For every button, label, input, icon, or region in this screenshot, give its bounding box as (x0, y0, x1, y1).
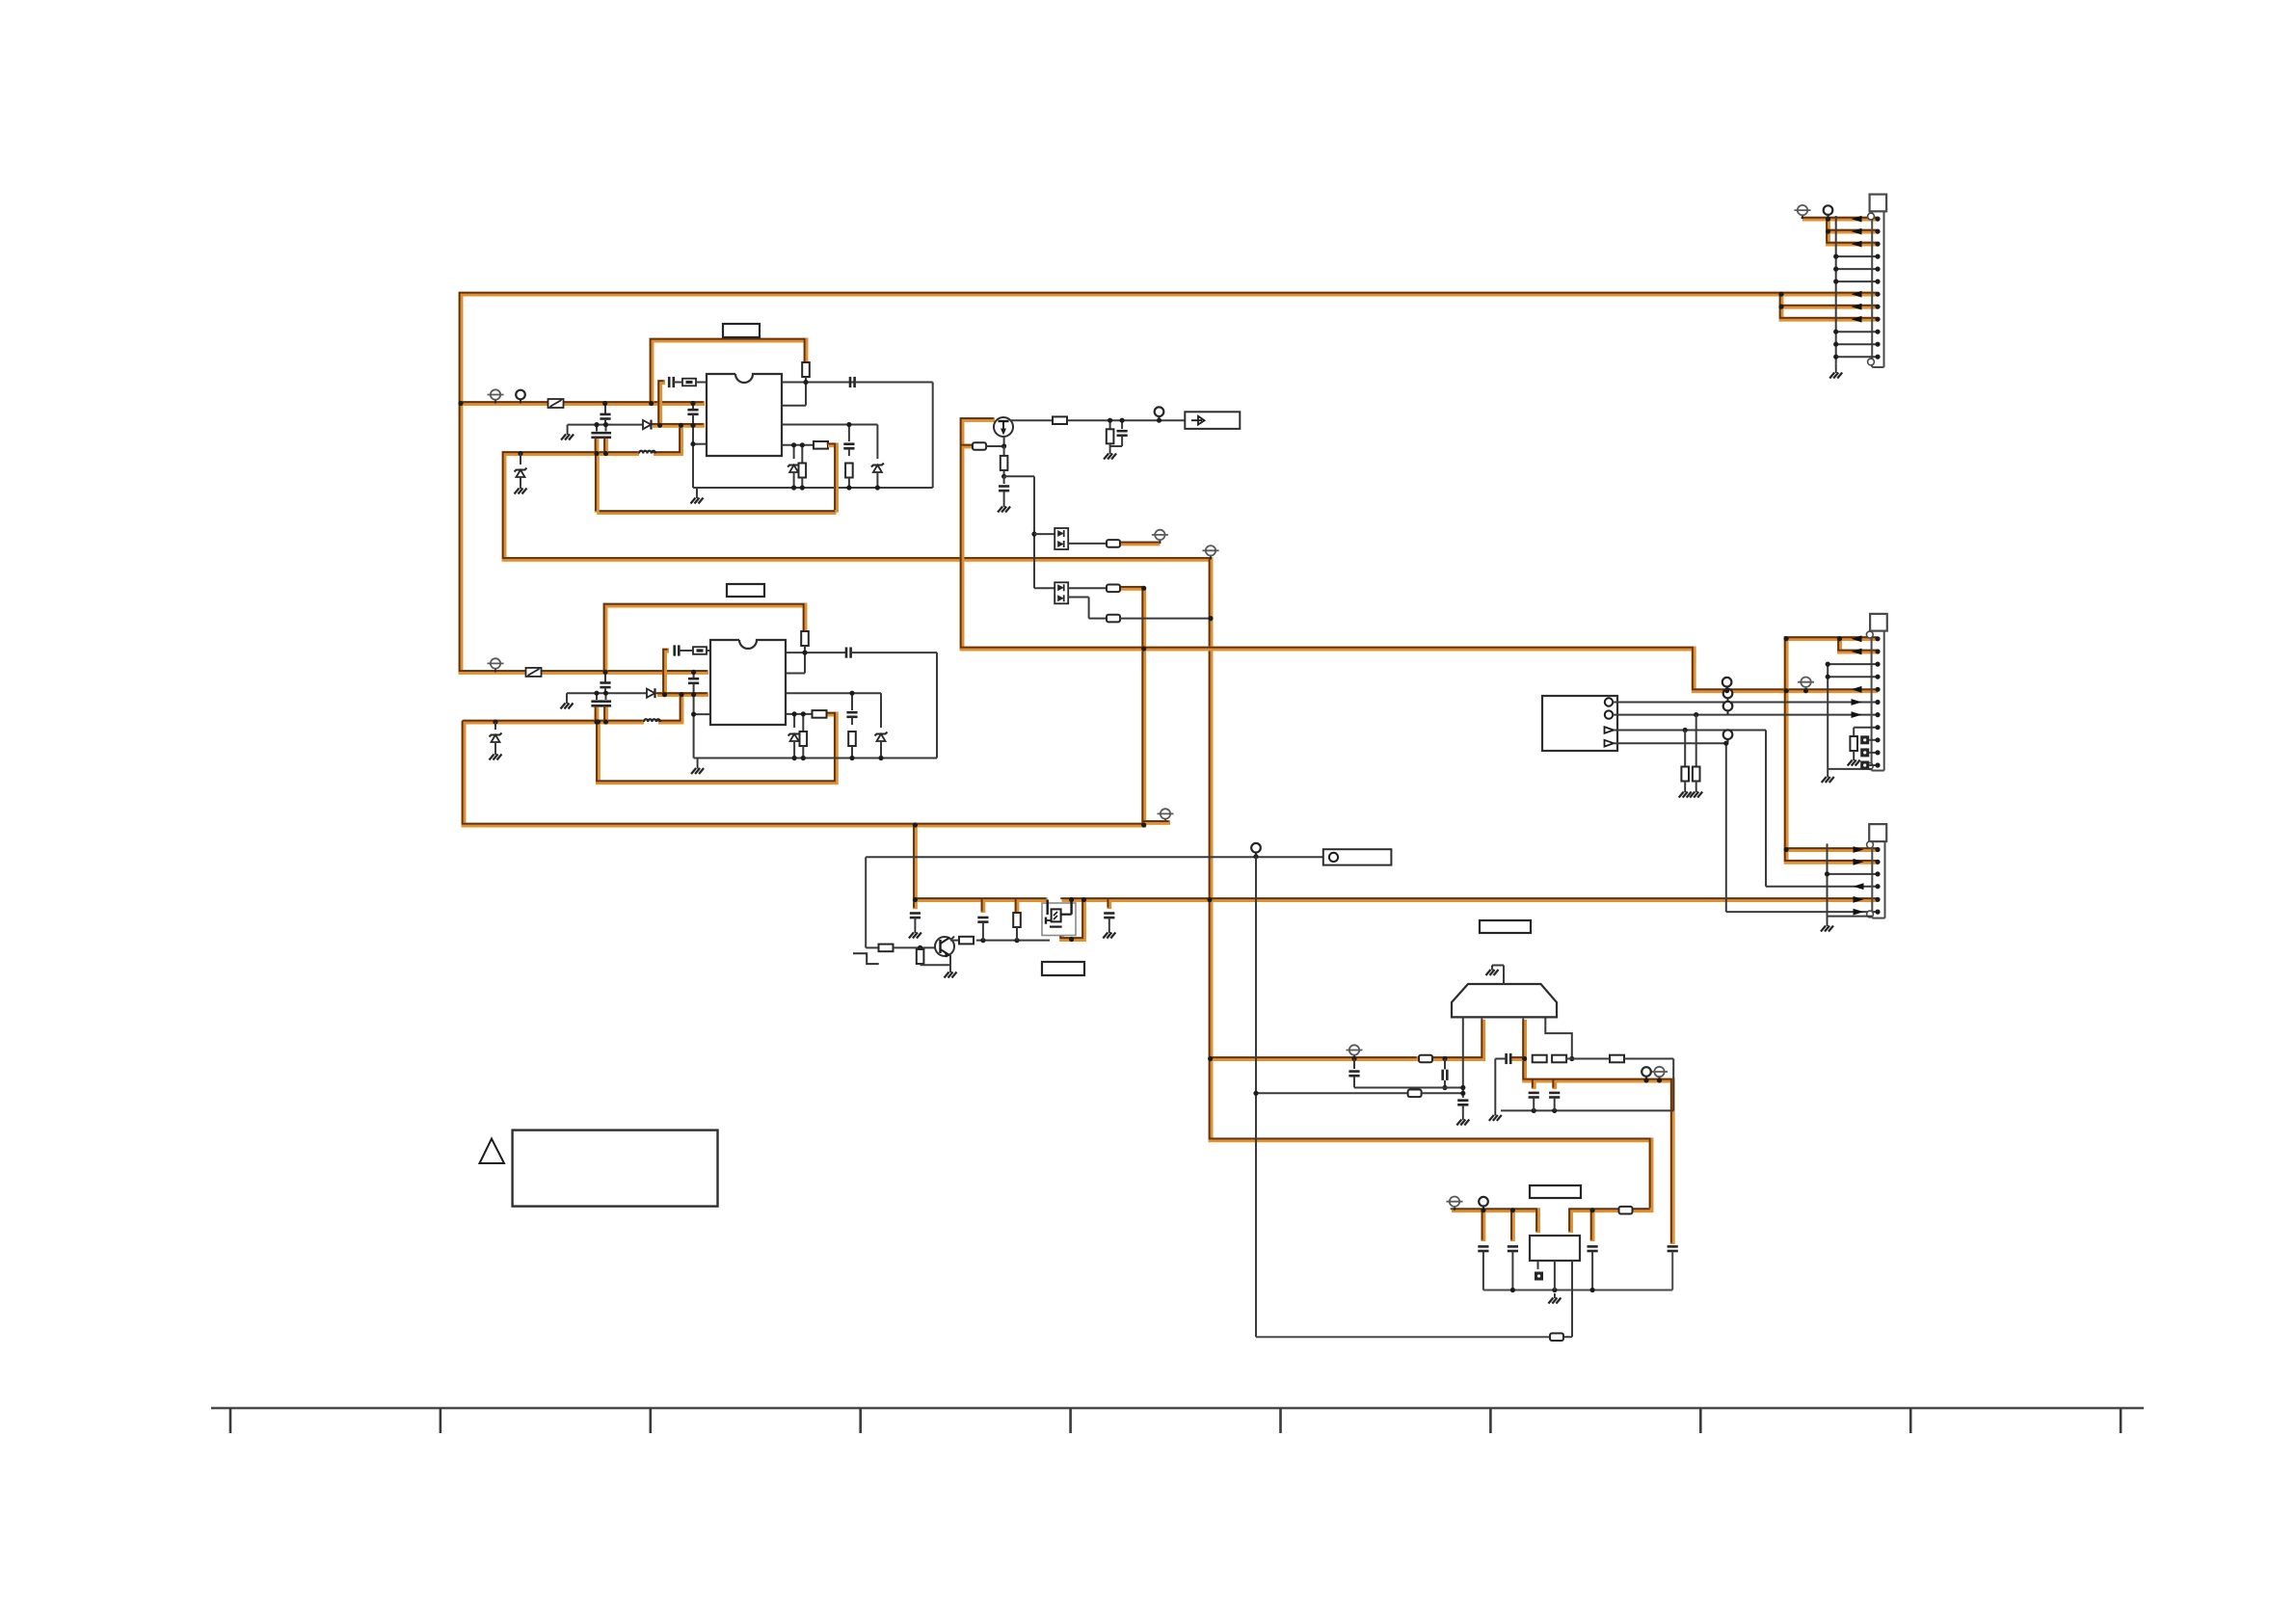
wire R11 bottom lead (1003, 470, 1005, 476)
junction bus feed (913, 897, 918, 902)
power flag VIN2 (488, 658, 504, 672)
fuse F2 (526, 668, 542, 677)
arrow J3 p4 (1854, 883, 1864, 890)
wire R11 top lead (1003, 446, 1005, 456)
junction U4 bus b (1510, 1208, 1515, 1212)
wire C23 gnd drop (1494, 1059, 1496, 1111)
ground G12 (1486, 966, 1499, 976)
resistor R8 (813, 710, 827, 718)
wire U3 tab stub (1503, 966, 1505, 985)
wire C5 top lead (692, 404, 694, 411)
test point box (1323, 849, 1392, 865)
wire Z3 gnd lead (520, 477, 521, 484)
junction J3 pin5 (1875, 897, 1880, 902)
wire R19 gnd lead (1684, 782, 1686, 788)
wire cap stub mid (913, 825, 918, 909)
wire zener Z5 lead (880, 693, 882, 728)
ground G10 (945, 968, 957, 978)
junction 3V flag (1351, 1056, 1356, 1061)
wire sense vertical long (1255, 857, 1257, 1337)
junction OUT2-riser (679, 692, 683, 697)
junction OUT1-riser (679, 423, 683, 428)
resistor R18 (1610, 1055, 1624, 1063)
junction C23-pin3 (1522, 1056, 1527, 1061)
power flag VIN1 (488, 389, 504, 403)
ground G16 (1679, 787, 1692, 798)
junction J3 pin1 (1875, 847, 1880, 852)
junction row2-C10 (603, 691, 608, 696)
ruler tick (2120, 1408, 2122, 1433)
wire J2 p8 drop (1853, 728, 1855, 740)
wire res row (1566, 1058, 1610, 1060)
wire IC1 pin R1 row (782, 382, 854, 384)
junction gnd rail Z1 (791, 485, 796, 490)
wire C22 top lead (1353, 1059, 1355, 1070)
junction J1 pin4 (1875, 254, 1880, 259)
wire IC1 pin R2 (782, 405, 806, 407)
junction J2 pin9 (1875, 737, 1880, 742)
wire +B J1 p1 (1802, 217, 1878, 222)
junction J1 pin6 (1875, 279, 1880, 284)
wire C8 bottom lead (604, 688, 606, 694)
wire cap stub e (1552, 1080, 1557, 1089)
wire C17 gnd lead (914, 918, 916, 928)
junction R5-row (802, 651, 807, 655)
junction J2 pin5 (1875, 687, 1880, 692)
wire +B J1 p2 (1829, 229, 1879, 234)
capacitor C2 (591, 433, 601, 438)
wire R21 gnd lead (1853, 751, 1855, 756)
component FB8 (1550, 1333, 1563, 1341)
wire base row b (894, 946, 937, 948)
wire center vertical 1 (692, 427, 694, 488)
dual diode D4 (1055, 582, 1068, 603)
wire BATT net (962, 419, 1878, 690)
arrow J1 pin1 (1852, 216, 1862, 223)
wire J2 pin8 (1854, 727, 1878, 729)
junction det-C15 (1120, 418, 1125, 423)
junction PWR cross (1141, 646, 1146, 651)
resistor R10 (1107, 429, 1114, 443)
wire gnd stub det (1109, 446, 1111, 449)
wire FB1 bottom run (597, 510, 836, 515)
label box U4 (1530, 1185, 1581, 1198)
wire IC2 pin R4 row (786, 713, 814, 715)
resistor R4 (814, 441, 828, 449)
wire 5V bus right (1062, 897, 1878, 902)
title-block ruler line (211, 1407, 2144, 1409)
junction VIN2-loop (602, 670, 607, 675)
junction J1 pin8 (1875, 305, 1880, 309)
wire gate row b (976, 940, 1050, 942)
wire Q1 base row (985, 445, 1004, 447)
wire Z5 to gnd rail (880, 741, 882, 758)
wire 1.8V net (1525, 1020, 1673, 1244)
junction PWR corner (1141, 822, 1146, 827)
connector J3 shell (1867, 824, 1887, 918)
junction FET return (1069, 937, 1074, 942)
capacitor C11 (846, 648, 851, 658)
wire C20 gnd lead (1462, 1105, 1464, 1115)
junction J3 pin4 (1875, 884, 1880, 889)
filter FB1 (682, 379, 696, 386)
wire U5d to J3 p6 (1726, 911, 1878, 913)
wire IC1 pin R3 row (782, 424, 877, 426)
wire emitter row (921, 964, 950, 966)
wire to D3 (1034, 533, 1055, 535)
wire U5b to J2 p7 (1613, 714, 1878, 716)
junction (1826, 662, 1830, 667)
capacitor C27 (1508, 1246, 1518, 1251)
junction VIN1-loop (649, 401, 654, 406)
wire FB1 riser (595, 454, 600, 513)
wire +B J1 drop (1829, 219, 1879, 244)
wire C2 top lead (596, 425, 598, 432)
junction C25 bottom (1552, 1108, 1557, 1113)
wire J3 pin3 (1828, 873, 1879, 875)
wire OUT2 to IC (657, 692, 708, 697)
wire R2 to gnd rail (801, 478, 803, 489)
junction R11-C16 (1001, 474, 1006, 479)
junction gate-C18 (980, 938, 985, 943)
bead NC (1535, 1272, 1543, 1281)
wire diode feed vertical (1033, 476, 1035, 588)
arrow J2 p2 (1852, 649, 1862, 655)
capacitor C21 plates (1443, 1070, 1448, 1080)
wire gnd-cap row 2 (567, 692, 648, 694)
wire R1 to pin (805, 377, 807, 406)
ground G17 (1690, 787, 1702, 798)
wire Z4 to gnd rail (793, 741, 795, 758)
resistor R7 (848, 732, 856, 746)
arrow J1 pin8 (1852, 304, 1862, 310)
junction BATT flag (1803, 688, 1808, 693)
wire IC2 pin L4 (694, 713, 709, 715)
wire center vertical 2 (693, 696, 695, 758)
junction 1.8V flag (1657, 1078, 1662, 1082)
junction TP4 (1643, 1078, 1648, 1082)
IC U1 regulator (707, 374, 782, 456)
junction R3-C7 (846, 422, 851, 427)
wire gnd rail 2 (694, 758, 937, 759)
dual diode D3 (1055, 528, 1068, 549)
wire R13 top lead (920, 947, 921, 951)
wire C15 bottom lead (1121, 437, 1123, 447)
wire detect out (1119, 541, 1161, 545)
wire C2 bottom lead (595, 439, 600, 454)
arrow J1 pin9 (1852, 316, 1862, 323)
power flag U4 (1447, 1197, 1463, 1211)
transistor Q2 NPN (935, 937, 954, 958)
bead J2 p10 (1860, 748, 1869, 757)
wire J1 pin4 (1836, 255, 1878, 257)
wire J3 gnd rail (1827, 843, 1829, 916)
capacitor C22 (1348, 1072, 1359, 1077)
junction sense (1253, 1091, 1258, 1096)
junction gnd rail Z4 (792, 756, 797, 760)
wire C14 top lead (851, 693, 853, 710)
wire to dual diodes (1004, 475, 1034, 477)
capacitor C25 (1549, 1093, 1560, 1098)
capacitor C7 (843, 444, 854, 449)
wire Z3 lead (520, 454, 521, 466)
resistor R15 (1013, 913, 1021, 927)
wire res stub b (1015, 900, 1020, 916)
wire J2 pin4 (1828, 676, 1878, 678)
resistor R9 (1053, 416, 1067, 424)
wire U5a to J2 p6 (1613, 702, 1878, 704)
wire to D4 (1034, 587, 1055, 589)
wire C16 gnd lead (1003, 492, 1005, 502)
junction (1833, 355, 1838, 359)
wire cap stub f (1481, 1211, 1485, 1241)
wire IC2 pin R2 (786, 673, 805, 675)
wire C9 top lead (596, 693, 598, 700)
wire gnd stub Q2 (949, 965, 951, 968)
arrow J2 p6 (1852, 699, 1862, 705)
zener Z5 (875, 732, 888, 742)
wire SW2 cap stub (665, 651, 670, 695)
wire R10-C15 join (1110, 445, 1123, 447)
junction bus start (1208, 1056, 1213, 1061)
arrow J1 pin3 (1852, 241, 1862, 248)
arrow J2 p1 (1852, 635, 1862, 642)
U5 pin bubbles (1605, 698, 1615, 746)
wire J1 pin5 (1836, 268, 1878, 270)
capacitor C12 (688, 678, 699, 683)
junction FET drain (1069, 897, 1074, 902)
label box Q3 (1042, 962, 1084, 975)
capacitor C3 (601, 433, 611, 438)
junction diode1 tap (1031, 532, 1036, 537)
wire 3V bus b (1433, 1020, 1483, 1059)
junction J1 pin7 (1875, 292, 1880, 297)
connector J1 shell (1868, 195, 1887, 367)
wire fb loop vertical 1 (932, 383, 934, 489)
step waveform symbol (853, 953, 879, 964)
junction VIN1-C1 (602, 401, 607, 406)
wire U5c drop (1765, 731, 1767, 887)
ruler tick (649, 1408, 652, 1433)
wire cap stub d (1532, 1080, 1536, 1089)
label box U1 (723, 324, 760, 337)
junction J2 pin4 (1875, 675, 1880, 679)
wire fb bottom row (1501, 1109, 1673, 1111)
wire 3V bus a (1211, 1056, 1418, 1061)
wire R6 top lead (802, 714, 804, 732)
wire C3 bottom lead (603, 439, 608, 454)
capacitor C20 (1457, 1101, 1468, 1105)
ruler tick (1909, 1408, 1912, 1433)
junction (1833, 267, 1838, 272)
wire FB1 to IC (696, 382, 706, 384)
wire C16 top lead (1003, 476, 1005, 484)
power flag BATT (1798, 678, 1814, 691)
junction D4-OUT1 (1208, 616, 1213, 621)
wire U4 gnd pin (1554, 1261, 1556, 1290)
junction J1 pin12 (1875, 355, 1880, 359)
IC U2 regulator (710, 640, 786, 725)
capacitor C23 (1507, 1053, 1511, 1064)
zener Z4 (788, 732, 801, 742)
junction J3 pin3 (1875, 871, 1880, 876)
junction rail C27 (1510, 1288, 1515, 1292)
junction gnd rail R6 (801, 756, 806, 760)
wire PWR flag stub (1144, 820, 1170, 825)
wire C14 to R7 (851, 718, 853, 726)
inductor L1 (639, 451, 655, 454)
wire res row b (1624, 1058, 1673, 1060)
wire U5c row (1614, 730, 1766, 732)
terminal TP4 (1642, 1067, 1651, 1080)
junction SW2-C9 (594, 719, 599, 724)
junction row2-C9 (594, 691, 599, 696)
junction border-VIN1 (458, 401, 463, 406)
wire U4 gnd rail (1483, 1290, 1672, 1291)
wire BATT J3 p1 (1786, 847, 1878, 852)
junction J1 tp (1826, 217, 1830, 222)
junction J1 pin2 (1875, 229, 1880, 234)
junction enable-tp (1253, 854, 1258, 859)
bead J2 p9 (1860, 735, 1869, 744)
junction OUT2-C12 (691, 692, 696, 697)
wire SW1 cap stub (660, 383, 665, 426)
ground G6 (490, 750, 502, 760)
capacitor C6 (669, 377, 674, 387)
arrow J2 p7 (1852, 711, 1862, 718)
junction (1826, 675, 1830, 679)
resistor R11 (1001, 456, 1008, 470)
MOSFET pair Q3 (1042, 900, 1076, 936)
junction (1833, 279, 1838, 284)
junction gnd rail R3 (846, 485, 851, 490)
wire Q2 collector lead (950, 937, 954, 941)
wire BATT J2 p2 (1840, 639, 1879, 652)
wire FB8 to pin (1563, 1336, 1572, 1338)
IC U4 (1530, 1236, 1580, 1261)
wire PWR net (464, 588, 1144, 825)
wire D4 jog (1088, 598, 1090, 619)
junction J1 pin5 (1875, 267, 1880, 272)
power flag PWR (1158, 809, 1174, 822)
junction pin1 rowA (1460, 1085, 1465, 1090)
component FB4 (1107, 585, 1120, 593)
junction OUT1-C5 (690, 423, 695, 428)
wire FB1 drop (828, 445, 837, 513)
junction rail C28 (1590, 1288, 1595, 1292)
arrow J3 p5 (1854, 896, 1864, 903)
wire C12 bottom lead (693, 684, 695, 695)
terminal TP3 (1251, 843, 1261, 857)
wire R7 to gnd rail (851, 746, 853, 758)
wire C18 bottom lead (982, 923, 984, 941)
ground G14 (1489, 1110, 1502, 1121)
power flag detect (1152, 530, 1168, 544)
junction TPd (1724, 688, 1729, 693)
capacitor C13 (675, 645, 680, 655)
wire gnd rail 1 (693, 487, 933, 489)
wire R6 to gnd rail (802, 746, 804, 758)
capacitor C28 (1588, 1246, 1598, 1251)
wire J2 rail to shell (1828, 768, 1871, 770)
wire C6 to FB1 (674, 382, 682, 384)
wire PNP bias stub (962, 444, 974, 449)
wire C21 bottom lead (1444, 1080, 1446, 1088)
capacitor C17 (910, 914, 921, 918)
power flag 1.8V (1651, 1067, 1668, 1080)
wire C13 to FB2 (679, 650, 693, 652)
diode D2 (647, 688, 655, 698)
wire IC2 pin R3 row (786, 692, 881, 694)
wire C1 bottom lead (604, 419, 606, 425)
junction L4 (690, 441, 695, 446)
wire +B J1 p8 (1781, 305, 1878, 309)
wire bottom bus c (1630, 1208, 1651, 1212)
wire U4 ncpin (1537, 1261, 1539, 1269)
wire FB2 loop (598, 714, 836, 783)
arrow J3 p2 (1854, 859, 1864, 865)
label box U3 (1480, 920, 1531, 933)
wire zener Z4 lead (793, 714, 795, 728)
wire R13 bottom lead (920, 964, 921, 966)
resistor R16 (1533, 1055, 1547, 1063)
ground G15 (1548, 1293, 1561, 1304)
junction J2 pin6 (1875, 700, 1880, 705)
wire C19 gnd lead (1108, 918, 1110, 928)
wire C27 lead (1511, 1252, 1513, 1290)
capacitor C15 (1117, 431, 1128, 436)
wire SW2 rail right (658, 695, 681, 722)
wire C7 to R3 (848, 449, 850, 456)
power flag 3V (1347, 1045, 1363, 1058)
junction SW1-C3 (603, 451, 608, 456)
wire C24 lead (1533, 1098, 1535, 1110)
wire C12 top lead (693, 672, 695, 678)
wire C29 lead (1671, 1252, 1673, 1290)
diode D1 (643, 420, 652, 430)
junction gnd rail R7 (849, 756, 854, 760)
wire R3 to gnd rail (848, 478, 850, 489)
wire C26 lead (1482, 1252, 1484, 1290)
wire Q2 emitter lead (949, 955, 951, 965)
wire C15 top lead (1121, 420, 1123, 429)
wire J2 pin10 (1869, 752, 1878, 754)
wire C10 top lead (605, 693, 607, 700)
wire zener Z2 lead (876, 425, 878, 460)
ruler tick (229, 1408, 232, 1433)
junction R1-row (803, 380, 808, 385)
ground G3 (515, 484, 527, 494)
wire J1 pin11 (1836, 343, 1878, 345)
note box (513, 1131, 718, 1207)
ground G19 (1848, 756, 1860, 766)
capacitor C9 (591, 702, 601, 706)
wire C25 lead (1554, 1098, 1556, 1110)
capacitor C29 (1668, 1246, 1678, 1251)
wire cap stub g (1510, 1211, 1515, 1241)
ruler tick (1699, 1408, 1702, 1433)
capacitor C5 (687, 410, 698, 414)
wire U4 fb pin (1571, 1261, 1573, 1337)
junction rail gnd (1552, 1288, 1557, 1292)
wire SW2 rail left (464, 720, 644, 725)
junction R17-pin4 (1569, 1056, 1574, 1061)
wire U4 fb row (1256, 1336, 1550, 1338)
wire C21 top lead (1444, 1059, 1446, 1070)
junction J3 pin2 (1875, 860, 1880, 865)
junction gnd rail Z2 (875, 485, 880, 490)
junction J2 pin3 (1875, 662, 1880, 667)
